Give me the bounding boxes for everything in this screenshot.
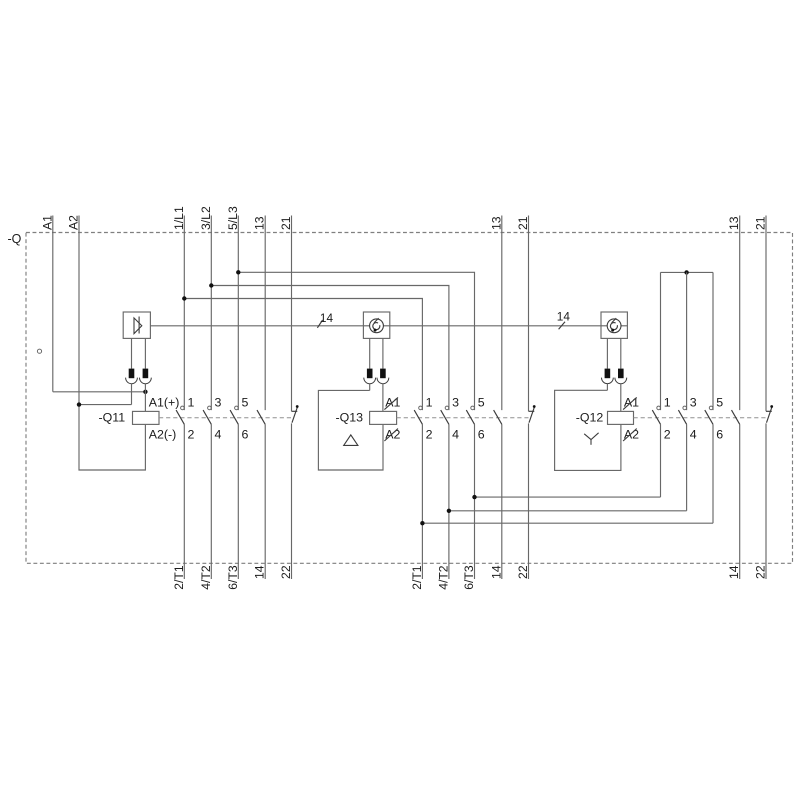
coil -Q12 box — [608, 411, 634, 424]
wire 4/T2 lower — [210, 424, 212, 579]
svg-text:14: 14 — [557, 310, 571, 324]
coil -Q11 box — [133, 411, 160, 424]
wire timer left lead lower Q12 — [606, 384, 608, 391]
svg-text:5: 5 — [716, 395, 723, 409]
main NO contact fixed-terminal circle at x=713.0 — [709, 406, 713, 410]
delta symbol of Q13 — [344, 435, 358, 446]
timer clock symbol — [370, 318, 384, 333]
contact moving blade at x=660.5 — [652, 410, 660, 424]
svg-text:5/L3: 5/L3 — [226, 206, 240, 230]
coil plug-in connector at x=131.5 — [126, 369, 138, 384]
actuator linkage dashed Q13 — [397, 417, 529, 419]
coil plug-in connector at x=607.4 — [602, 369, 614, 384]
wire Q12 coil return loop — [555, 390, 621, 470]
svg-text:13: 13 — [253, 216, 267, 230]
wire Q13 pole1 lower — [421, 424, 423, 579]
terminal 1/L1 wire — [183, 216, 185, 411]
wire net 14 module chain — [150, 325, 363, 327]
svg-text:6/T3: 6/T3 — [226, 565, 240, 590]
svg-text:21: 21 — [279, 216, 293, 230]
wire Q12 pole5 lower — [712, 424, 714, 523]
svg-text:22: 22 — [279, 565, 293, 579]
contact moving blade at x=686.6 — [678, 410, 686, 424]
wire Q12 pole5 upper — [712, 272, 714, 410]
svg-text:A2(-): A2(-) — [149, 427, 177, 441]
timer function-module box — [363, 312, 389, 338]
actuator linkage dashed Q12 — [634, 417, 767, 419]
main NO contact fixed-terminal circle at x=660.5 — [657, 406, 661, 410]
svg-text:1: 1 — [426, 395, 433, 409]
svg-text:6: 6 — [478, 427, 485, 441]
NC contact blade end dot at x=528.5 — [533, 405, 536, 408]
svg-text:4: 4 — [215, 427, 222, 441]
wire 2/T1 lower — [183, 424, 185, 579]
svg-text:22: 22 — [516, 565, 530, 579]
contact moving blade at x=739.7 — [732, 410, 740, 424]
node delta link T1 — [420, 521, 424, 525]
svg-text:2/T1: 2/T1 — [172, 565, 186, 590]
svg-text:4/T2: 4/T2 — [436, 565, 450, 590]
coil plug-in connector at x=145.4 — [140, 369, 152, 384]
wire timer right lead to coil A1 Q13 — [382, 384, 384, 412]
indicator circle — [37, 349, 41, 353]
svg-text:4: 4 — [690, 427, 697, 441]
wire delta link T2 to Q12 pole3 — [449, 510, 687, 512]
wire Q13 pole3 lower — [448, 424, 450, 579]
svg-text:3/L2: 3/L2 — [199, 206, 213, 230]
node delta link T3 — [472, 495, 476, 499]
node L2 tap — [209, 283, 213, 287]
net 14 slash marker — [317, 320, 322, 328]
contact moving blade at x=265.2 — [257, 410, 265, 424]
enclosure dashed boundary of assembly -Q — [26, 233, 793, 564]
wire delta link T3 to Q12 pole1 — [475, 496, 661, 498]
timer function-module box — [601, 312, 627, 338]
contact moving blade at x=474.5 — [466, 410, 474, 424]
svg-text:1: 1 — [664, 395, 671, 409]
coil plug-in connector at x=382.9 — [377, 369, 389, 384]
wire net 14 module chain 2 — [390, 325, 601, 327]
terminal 3/L2 wire — [210, 216, 212, 411]
suppressor diode symbol — [134, 317, 142, 334]
node L1 tap — [182, 296, 186, 300]
wire 14 lower Q12 — [739, 424, 741, 579]
main NO contact fixed-terminal circle at x=422.4 — [419, 406, 423, 410]
timer clock symbol — [607, 318, 621, 333]
terminal 13 wire Q12 — [739, 216, 741, 411]
terminal 21 wire Q12 — [765, 216, 767, 412]
terminal 5/L3 wire — [237, 216, 239, 411]
wire Q12 pole1 lower — [660, 424, 662, 497]
main NO contact fixed-terminal circle at x=474.5 — [471, 406, 475, 410]
main NO contact fixed-terminal circle at x=238.3 — [235, 406, 239, 410]
contact moving blade at x=713.0 — [705, 410, 713, 424]
wire A1 feed to coil — [53, 391, 146, 393]
contact moving blade at x=448.9 — [441, 410, 449, 424]
svg-text:21: 21 — [754, 216, 768, 230]
svg-text:A2: A2 — [67, 215, 81, 230]
main NO contact fixed-terminal circle at x=448.9 — [445, 406, 449, 410]
svg-text:A1: A1 — [40, 215, 54, 230]
wire 22 lower Q13 — [528, 423, 530, 579]
svg-text:2/T1: 2/T1 — [410, 565, 424, 590]
svg-text:5: 5 — [242, 395, 249, 409]
wire L3 feeder to Q13 pole 5 — [238, 272, 474, 410]
wire stub inside timer box right — [384, 325, 390, 327]
svg-text:14: 14 — [320, 311, 334, 325]
svg-text:3: 3 — [215, 395, 222, 409]
coil A2 slash Q13 — [384, 429, 398, 441]
contact moving blade at x=238.3 — [230, 410, 238, 424]
svg-text:6/T3: 6/T3 — [462, 565, 476, 590]
terminal 13 wire Q13 — [501, 216, 503, 411]
wire suppressor right lead — [144, 338, 146, 368]
svg-text:2: 2 — [188, 427, 195, 441]
wire timer left lead Q13 — [369, 338, 371, 368]
svg-text:3: 3 — [690, 395, 697, 409]
svg-text:14: 14 — [253, 565, 267, 579]
NC contact fixed bar at x=528.5 — [529, 410, 535, 412]
node delta link T2 — [447, 509, 451, 513]
wire 6/T3 lower — [237, 424, 239, 579]
svg-text:-Q13: -Q13 — [336, 411, 364, 425]
wire suppressor left lead lower — [131, 384, 133, 405]
main NO contact fixed-terminal circle at x=184.3 — [181, 406, 185, 410]
svg-text:1: 1 — [188, 395, 195, 409]
svg-text:6: 6 — [716, 427, 723, 441]
main NO contact fixed-terminal circle at x=211.3 — [208, 406, 212, 410]
NC contact moving blade at x=528.5 — [529, 407, 534, 423]
terminal A2 wire — [78, 216, 80, 405]
svg-text:4: 4 — [452, 427, 459, 441]
svg-text:A2: A2 — [385, 427, 400, 441]
svg-text:A1(+): A1(+) — [149, 395, 180, 409]
svg-text:-Q11: -Q11 — [99, 411, 126, 425]
wire suppressor right lead to coil A1 — [144, 384, 146, 412]
svg-text:1/L1: 1/L1 — [172, 206, 186, 230]
wire timer left lead Q12 — [606, 338, 608, 368]
wire Q11 coil return loop — [79, 405, 145, 470]
node A2 junction — [77, 402, 81, 406]
terminal 21 wire Q13 — [528, 216, 530, 412]
wire 22 lower Q12 — [765, 423, 767, 579]
svg-text:-Q12: -Q12 — [576, 411, 604, 425]
wire Q12 pole1 upper — [660, 272, 662, 410]
main NO contact fixed-terminal circle at x=686.6 — [683, 406, 687, 410]
coil A2 slash Q12 — [623, 429, 637, 441]
wire 14 lower Q11 — [264, 424, 266, 579]
wire timer left lead lower Q13 — [369, 384, 371, 391]
wire timer right lead Q13 — [382, 338, 384, 368]
svg-text:13: 13 — [489, 216, 503, 230]
NC contact fixed bar at x=291.5 — [292, 410, 298, 412]
terminal 21 wire Q11 — [291, 216, 293, 412]
wire timer right lead Q12 — [620, 338, 622, 368]
wire Q13 coil return loop — [318, 390, 383, 470]
NC contact blade end dot at x=291.5 — [296, 405, 299, 408]
wire Q12 pole3 upper — [686, 272, 688, 410]
coil -Q13 box — [370, 411, 397, 424]
svg-text:2: 2 — [664, 427, 671, 441]
svg-text:14: 14 — [727, 565, 741, 579]
wire Q12 pole3 lower — [686, 424, 688, 511]
contact moving blade at x=211.3 — [203, 410, 211, 424]
wire suppressor left lead — [131, 338, 133, 368]
NC contact moving blade at x=766.0 — [767, 407, 772, 423]
coil A1 slash Q13 — [384, 397, 398, 409]
svg-text:22: 22 — [754, 565, 768, 579]
svg-text:21: 21 — [516, 216, 530, 230]
wire delta link T1 to Q12 pole5 — [422, 522, 713, 524]
wire 22 lower Q11 — [291, 423, 293, 579]
svg-text:4/T2: 4/T2 — [199, 565, 213, 590]
wire timer right lead to coil A1 Q12 — [620, 384, 622, 412]
svg-text:-Q: -Q — [8, 232, 22, 246]
contact moving blade at x=422.4 — [414, 410, 422, 424]
svg-text:2: 2 — [426, 427, 433, 441]
wire Q13 pole5 lower — [474, 424, 476, 579]
NC contact fixed bar at x=766.0 — [766, 410, 772, 412]
coil A1 slash Q12 — [623, 397, 637, 409]
net 14 slash marker 2 — [559, 322, 565, 329]
svg-text:6: 6 — [242, 427, 249, 441]
terminal 13 wire Q11 — [264, 216, 266, 411]
coil plug-in connector at x=620.8 — [615, 369, 627, 384]
star symbol of Q12 — [584, 433, 598, 445]
svg-text:14: 14 — [489, 565, 503, 579]
node star bridge junction — [684, 270, 688, 274]
coil plug-in connector at x=369.7 — [364, 369, 376, 384]
wire A2 feed to suppressor — [79, 404, 132, 406]
wire stub inside timer box left — [363, 325, 369, 327]
svg-text:A2: A2 — [624, 427, 639, 441]
node L3 tap — [236, 270, 240, 274]
NC contact blade end dot at x=766.0 — [770, 405, 773, 408]
NC contact moving blade at x=291.5 — [292, 407, 297, 423]
wire L2 feeder to Q13 pole 3 — [211, 286, 449, 411]
wire stub inside timer box left — [601, 325, 607, 327]
terminal A1 wire — [52, 216, 54, 392]
surge suppressor module box on Q11 — [123, 312, 150, 338]
contact moving blade at x=501.8 — [494, 410, 502, 424]
svg-text:13: 13 — [727, 216, 741, 230]
wire L1 feeder to Q13 pole 1 — [184, 299, 422, 411]
wire stub inside timer box right — [621, 325, 627, 327]
node A1 junction — [143, 390, 147, 394]
wire 14 lower Q13 — [501, 424, 503, 579]
svg-text:5: 5 — [478, 395, 485, 409]
contact moving blade at x=184.3 — [176, 410, 184, 424]
wire star-point bridge Q12 — [661, 271, 714, 273]
svg-text:3: 3 — [452, 395, 459, 409]
actuator linkage dashed Q11 — [159, 417, 292, 419]
